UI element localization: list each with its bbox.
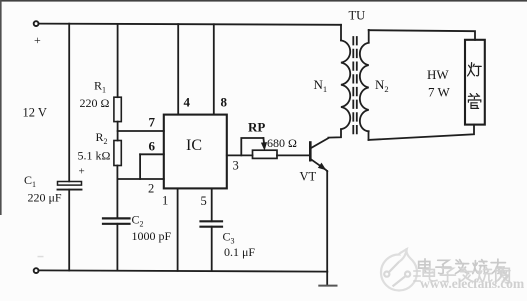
svg-text:www.elecfans.com: www.elecfans.com — [420, 276, 525, 291]
wire pin 7 — [118, 130, 164, 132]
svg-text:5.1 kΩ: 5.1 kΩ — [78, 149, 111, 163]
svg-text:7: 7 — [149, 115, 156, 130]
winding N1 — [314, 25, 351, 138]
terminal - (bottom left) — [34, 268, 39, 273]
wire R1 to R2 — [117, 122, 119, 141]
wire pin 4 to top rail — [177, 24, 179, 114]
wire pin 3 — [227, 154, 253, 156]
capacitor C3 — [201, 221, 256, 259]
resistor R1 — [80, 79, 122, 122]
svg-text:3: 3 — [233, 159, 239, 173]
wire secondary bottom to lamp — [369, 125, 475, 140]
wire RP to transistor base — [277, 154, 309, 156]
svg-text:TU: TU — [349, 9, 366, 23]
wire left rail upper — [68, 24, 70, 182]
svg-text:IC: IC — [186, 137, 202, 154]
lamp glyph 灯 (drawn) — [468, 63, 482, 76]
svg-text:12 V: 12 V — [23, 106, 47, 120]
svg-text:6: 6 — [149, 139, 156, 154]
watermark logo (decorative) — [381, 249, 420, 290]
svg-text:7 W: 7 W — [428, 85, 451, 100]
svg-text:HW: HW — [427, 67, 449, 82]
svg-text:4: 4 — [184, 95, 191, 110]
wire R1 branch from top rail — [117, 24, 119, 97]
watermark 网 (drawn) — [496, 268, 510, 283]
wire left rail lower — [68, 190, 70, 271]
svg-text:5: 5 — [201, 194, 207, 208]
terminal + (top left) — [34, 21, 39, 26]
svg-text:VT: VT — [300, 170, 317, 184]
winding N2 — [360, 30, 389, 140]
wire pin 2 — [117, 178, 163, 180]
svg-text:1000 pF: 1000 pF — [132, 229, 172, 243]
label - (faint) — [38, 256, 44, 257]
transformer core — [352, 37, 354, 135]
ground — [319, 285, 336, 287]
svg-text:680 Ω: 680 Ω — [267, 136, 297, 150]
wire emitter to bottom rail and ground — [326, 171, 328, 286]
IC U1 — [164, 115, 227, 189]
wire pin 5 to C3 — [211, 188, 213, 221]
lamp HW 7W — [427, 40, 485, 125]
svg-text:1: 1 — [162, 194, 168, 208]
wire secondary top to lamp — [369, 30, 475, 40]
capacitor C1 — [24, 166, 85, 205]
wire C2 to bottom rail — [116, 224, 118, 271]
svg-text:220 μF: 220 μF — [28, 191, 62, 205]
svg-text:8: 8 — [221, 95, 228, 110]
wire R2 to node 2 and C2 — [116, 166, 118, 218]
capacitor C2 — [103, 213, 172, 244]
potentiometer RP — [241, 120, 297, 159]
svg-text:+: + — [34, 33, 41, 47]
wire bottom rail — [39, 270, 328, 271]
watermark row A 电子发烧友 (drawn) — [419, 259, 506, 274]
lamp glyph 管 (drawn) — [468, 94, 480, 109]
scan edge artifacts (decorative) — [0, 0, 527, 2]
svg-text:2: 2 — [148, 182, 154, 196]
resistor R2 — [78, 130, 122, 166]
svg-text:220 Ω: 220 Ω — [80, 96, 110, 110]
wire C3 to bottom rail — [211, 227, 213, 271]
svg-text:0.1 μF: 0.1 μF — [224, 245, 255, 259]
wire pin 6 — [140, 153, 164, 155]
svg-text:RP: RP — [248, 120, 265, 135]
wire node 6-2 vertical — [139, 154, 141, 179]
watermark row B 电子发烧友 (drawn) — [423, 267, 510, 282]
wire pin 1 to bottom rail — [177, 188, 179, 270]
wire pin 8 to top rail — [213, 24, 215, 114]
wire top rail — [39, 24, 341, 25]
transistor VT — [300, 138, 329, 183]
svg-text:+: + — [79, 166, 85, 178]
